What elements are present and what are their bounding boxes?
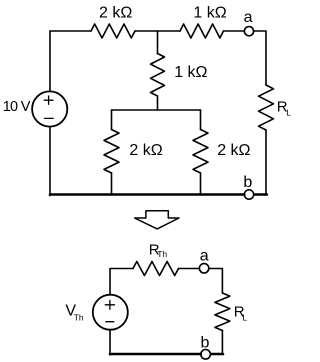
svg-text:10 V: 10 V	[3, 99, 31, 115]
svg-text:Th: Th	[74, 313, 84, 323]
svg-text:1 kΩ: 1 kΩ	[193, 4, 226, 21]
svg-text:2 kΩ: 2 kΩ	[99, 4, 132, 21]
svg-text:a: a	[200, 247, 209, 264]
svg-text:a: a	[244, 9, 253, 26]
svg-text:2 kΩ: 2 kΩ	[129, 142, 162, 159]
svg-text:b: b	[243, 174, 252, 191]
svg-text:L: L	[286, 108, 291, 118]
svg-text:b: b	[201, 334, 210, 351]
svg-text:1 kΩ: 1 kΩ	[174, 64, 207, 81]
svg-text:Th: Th	[157, 249, 167, 259]
svg-text:L: L	[242, 312, 247, 322]
svg-text:2 kΩ: 2 kΩ	[217, 142, 250, 159]
